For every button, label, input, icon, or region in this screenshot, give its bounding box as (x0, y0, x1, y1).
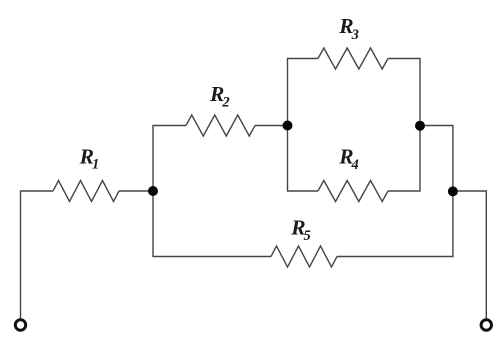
node A junction dot (148, 186, 158, 196)
wire node D right and down to right terminal (453, 191, 486, 320)
node B junction dot (283, 121, 293, 131)
svg-text:R1: R1 (79, 145, 100, 173)
wire R4 right and up to node C (388, 126, 420, 192)
wire R3 right and down to node C (388, 59, 420, 126)
wire node A up and right to R2 (153, 126, 186, 192)
wire node B up and right to R3 (288, 59, 319, 126)
wire R5 right and up to node D (337, 191, 453, 257)
left terminal (15, 320, 25, 330)
svg-text:R5: R5 (290, 216, 311, 245)
resistor R4 (318, 181, 388, 202)
svg-text:R2: R2 (209, 82, 230, 111)
wire R2 to node B (255, 125, 288, 127)
resistor R5 (271, 246, 337, 267)
svg-text:R4: R4 (338, 144, 359, 173)
wire R1 to node A (119, 190, 153, 192)
wire node C right and down to node D (420, 126, 453, 192)
wire node B down and right to R4 (288, 126, 319, 192)
svg-text:R3: R3 (338, 14, 359, 43)
resistor R2 (186, 115, 255, 136)
resistor R1 (53, 181, 119, 202)
node D junction dot (448, 186, 458, 196)
resistor R3 (318, 48, 388, 69)
node C junction dot (415, 121, 425, 131)
wire from left terminal up and right to R1 (21, 191, 54, 320)
right terminal (481, 320, 491, 330)
wire node A down and right to R5 (153, 191, 271, 257)
